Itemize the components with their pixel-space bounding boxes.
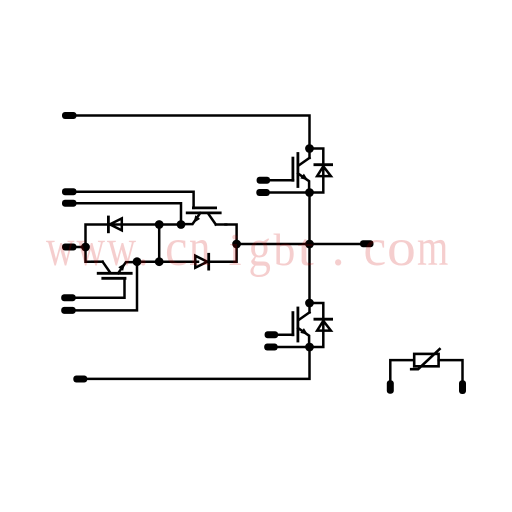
transistor Q4 inline bottom <box>92 262 137 279</box>
wire Q4 gate lead <box>76 278 125 297</box>
diode D2 pointing right <box>195 254 208 269</box>
wire Q4 emitter sense lead <box>77 262 138 311</box>
wire top rail <box>76 116 310 149</box>
svg-text:.: . <box>138 218 148 277</box>
node phase <box>305 240 314 249</box>
wire Q4 emitter to D2 rail <box>137 260 198 263</box>
svg-text:g: g <box>249 218 271 277</box>
terminal P3 Q3 emitter sense <box>62 200 77 207</box>
wire P3 lead to node C <box>77 203 181 224</box>
node Q4 emitter <box>133 257 142 266</box>
transistor Q3 inline top <box>181 208 226 225</box>
svg-text:w: w <box>77 218 106 277</box>
wire thermistor left lead <box>390 360 414 381</box>
terminal P11 Q2 emitter sense <box>264 344 278 351</box>
terminal P13 thermistor left <box>387 380 394 394</box>
wire Q1 aux emitter lead <box>269 191 310 194</box>
svg-text:o: o <box>387 219 416 277</box>
node A <box>81 243 90 252</box>
terminal P14 thermistor right <box>459 380 466 394</box>
terminal P2 Q3 gate <box>62 188 77 195</box>
svg-text:c: c <box>165 219 187 277</box>
wire X up to Q3 collector <box>226 225 237 245</box>
wire Q2 gate lead <box>278 334 294 337</box>
terminal P1 DC+ <box>62 112 77 119</box>
node Q2 emitter <box>305 343 314 352</box>
svg-text:i: i <box>229 226 242 276</box>
terminal P8 Q1 gate <box>257 177 271 184</box>
terminal P12 phase output <box>360 240 374 247</box>
svg-text:t: t <box>298 225 315 275</box>
node Q1 collector <box>305 144 314 153</box>
svg-text:n: n <box>189 218 210 277</box>
wire top-left rail <box>86 225 182 262</box>
transistor Q1 upper IGBT <box>293 148 310 193</box>
diode D1 pointing left <box>108 217 121 232</box>
terminal P5 Q4 gate <box>61 294 75 301</box>
watermark www.cnigbt.com <box>46 218 448 278</box>
svg-text:c: c <box>364 218 387 277</box>
wire Q2 aux emitter lead <box>277 346 310 349</box>
node Q1 emitter <box>305 188 314 197</box>
thermistor RT1 <box>411 349 439 369</box>
svg-text:m: m <box>417 219 448 278</box>
diode D4 antiparallel of Q2 <box>310 303 332 347</box>
terminal P6 Q4 emitter sense <box>61 307 75 314</box>
wire Q3 gate lead <box>77 192 194 208</box>
wire phase output <box>310 243 362 246</box>
svg-text:w: w <box>46 218 75 277</box>
wire Q1 gate lead <box>270 179 294 182</box>
diode D3 antiparallel of Q1 <box>310 149 332 193</box>
transistor Q2 lower IGBT <box>293 302 310 347</box>
svg-text:.: . <box>332 218 345 277</box>
wire COM lead <box>77 246 86 249</box>
wire phase to node X <box>237 243 310 246</box>
svg-text:w: w <box>107 219 136 278</box>
node C Q3 emitter <box>177 220 186 229</box>
node B2 <box>155 257 164 266</box>
svg-text:b: b <box>274 224 296 275</box>
wire B to B2 <box>158 225 161 262</box>
terminal P9 Q1 emitter sense <box>256 189 270 196</box>
wire thermistor right lead <box>439 360 463 381</box>
terminal P7 DC- <box>73 376 87 383</box>
node B <box>155 220 164 229</box>
node X <box>232 240 241 249</box>
node Q2 collector <box>305 299 314 308</box>
terminal P4 COM <box>62 244 77 251</box>
wire bottom rail <box>87 347 310 379</box>
wire phase vertical <box>308 193 311 304</box>
terminal P10 Q2 gate <box>265 331 279 338</box>
wire X down to D2 <box>210 244 237 262</box>
